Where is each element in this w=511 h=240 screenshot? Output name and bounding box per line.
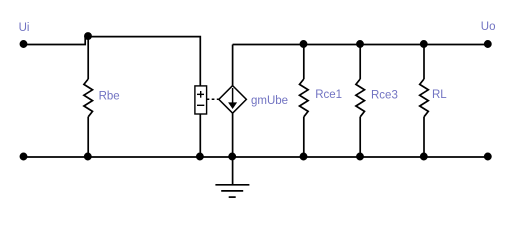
wire RL top lead xyxy=(423,45,425,80)
junction dot bottom sensor xyxy=(197,153,203,159)
svg-text:Ui: Ui xyxy=(19,22,30,34)
resistor Rce1 xyxy=(300,79,309,117)
junction dot bottom RL xyxy=(421,153,427,159)
resistor Rce3 xyxy=(356,79,365,117)
arrow inside source xyxy=(232,88,234,104)
svg-text:gmUbe: gmUbe xyxy=(251,95,288,107)
svg-text:Rbe: Rbe xyxy=(99,91,120,103)
ground xyxy=(215,184,249,186)
wire Rbe bottom lead xyxy=(87,117,89,157)
wire top right rail xyxy=(233,44,488,46)
plus sign in sensor box xyxy=(197,93,204,95)
resistor Rbe xyxy=(84,79,93,117)
wire bottom rail xyxy=(24,156,488,158)
bottom terminal dot left xyxy=(20,153,26,159)
wire source top lead xyxy=(232,45,234,86)
resistor RL xyxy=(420,79,429,117)
bottom terminal dot right xyxy=(485,153,491,159)
node Uo terminal dot xyxy=(485,41,491,47)
controlling-voltage sensor box of dependent source (Ube) xyxy=(195,86,207,114)
wire input from Ui node xyxy=(24,37,201,86)
junction dot bottom Rce1 xyxy=(300,153,306,159)
minus sign in sensor box xyxy=(197,104,204,106)
svg-text:Rce1: Rce1 xyxy=(315,89,342,101)
junction dot top Rce3 xyxy=(357,41,363,47)
junction dot bottom source/ground xyxy=(229,153,235,159)
wire Rce3 top lead xyxy=(359,45,361,80)
wire sensor box bottom lead xyxy=(199,114,201,157)
wire Rce1 bottom lead xyxy=(303,117,305,157)
svg-text:RL: RL xyxy=(432,89,447,101)
node Ui terminal dot xyxy=(20,41,26,47)
wire Rbe top lead xyxy=(87,37,89,79)
junction dot top Rce1 xyxy=(300,41,306,47)
wire source bottom lead to ground xyxy=(232,113,234,184)
junction dot bottom Rce3 xyxy=(357,153,363,159)
junction dot above Rbe xyxy=(85,33,91,39)
wire RL bottom lead xyxy=(423,117,425,157)
dashed control link xyxy=(207,98,219,100)
wire Rce1 top lead xyxy=(303,45,305,80)
junction dot bottom Rbe xyxy=(85,153,91,159)
dependent current source gmUbe diamond xyxy=(219,86,247,114)
svg-text:Uo: Uo xyxy=(481,21,496,33)
wire Rce3 bottom lead xyxy=(359,117,361,157)
svg-text:Rce3: Rce3 xyxy=(371,89,398,101)
junction dot top RL xyxy=(421,41,427,47)
